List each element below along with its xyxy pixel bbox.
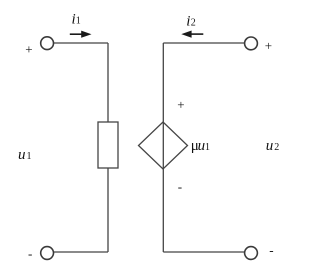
svg-text:1: 1 (27, 151, 32, 162)
svg-text:-: - (178, 179, 182, 194)
svg-text:-: - (28, 246, 32, 261)
svg-text:+: + (265, 38, 272, 53)
svg-text:1: 1 (205, 142, 210, 153)
svg-text:+: + (177, 97, 184, 112)
svg-text:2: 2 (191, 18, 196, 29)
svg-text:u: u (266, 138, 274, 154)
svg-text:+: + (25, 42, 32, 57)
svg-text:1: 1 (76, 16, 81, 27)
svg-text:2: 2 (274, 142, 279, 153)
svg-text:u: u (18, 147, 26, 163)
svg-text:u: u (198, 138, 206, 154)
svg-text:-: - (269, 243, 273, 258)
